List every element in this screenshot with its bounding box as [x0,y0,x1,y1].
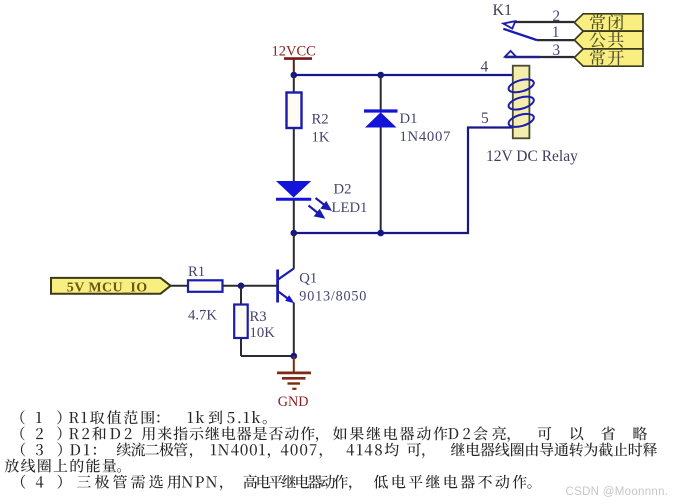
label 5V MCU_IO [67,280,148,295]
led D2 body [276,181,311,199]
wire port to R1 [171,285,188,287]
svg-text:1: 1 [552,24,560,41]
svg-text:LED1: LED1 [332,200,368,216]
svg-text:9013/8050: 9013/8050 [299,288,367,304]
label R1 [188,264,205,280]
wire 12V rail (R2 top to relay coil pin 4) [294,74,513,76]
relay K1 coil body [507,66,535,139]
resistor R3 [234,305,248,339]
pin number 1 [552,24,560,41]
pin Q1 collector [293,233,295,269]
power bar symbol 12VCC [284,57,312,60]
transistor Q1 body [278,269,295,304]
relay K1 NC contact [503,21,515,28]
svg-text:5: 5 [481,110,489,127]
note line 3 [21,442,657,458]
value label 10K [250,325,276,341]
pin R3 top [240,286,242,305]
svg-text:2: 2 [552,8,560,25]
note line 5 [21,475,532,491]
pin number 4 [481,59,489,76]
wire base node to Q1 base [241,285,278,287]
note line 2 [20,426,647,442]
pin R2 top [293,75,295,93]
node junction at D1 bottom [377,230,384,237]
label 12V DC Relay [486,148,578,165]
value label 1K [312,130,330,146]
svg-text:Q1: Q1 [299,270,317,286]
svg-text:12VCC: 12VCC [272,43,316,59]
resistor R2 [287,93,302,129]
port flag COM (gong-gong) [574,31,643,49]
svg-text:R1: R1 [188,264,205,280]
port flag NO (chang-kai) [574,49,643,66]
value label 9013/8050 [299,288,367,304]
relay K1 NO contact [505,51,516,57]
svg-text:10K: 10K [250,325,276,341]
value label 1N4007 [400,129,452,145]
pin D1 bottom [380,128,382,234]
label GND [278,394,309,410]
node junction at LED bottom [291,230,298,237]
led D2 light arrows [309,198,330,217]
resistor R1 [188,280,223,292]
port flag 5V MCU_IO [51,278,171,294]
wire relay pin 2 [511,21,575,23]
node junction at D1 top [377,72,384,79]
label D2 [334,182,352,198]
pin number 2 [552,8,560,25]
wire relay pin 3 [505,56,575,58]
note line 1 [20,410,267,424]
ground symbol [277,356,311,389]
svg-text:4: 4 [481,59,489,76]
svg-text:4.7K: 4.7K [188,308,217,324]
node junction at Q1 base / R3 top [238,283,245,290]
svg-text:K1: K1 [493,2,513,19]
svg-text:D2: D2 [334,182,352,198]
svg-text:3: 3 [552,42,560,59]
wire power stub [293,59,295,75]
label R3 [250,309,267,325]
value label LED1 [332,200,368,216]
label COM text [590,32,624,48]
svg-text:D1: D1 [400,111,418,127]
label D1 [400,111,418,127]
node junction at emitter / ground [291,353,298,360]
wire R3 bottom to emitter node [241,355,294,357]
svg-text:1K: 1K [312,130,330,146]
note line 4 [5,459,121,473]
label K1 [493,2,513,19]
pin D2 bottom [293,200,295,233]
label Q1 [299,270,317,286]
node junction at R2 top [291,72,298,79]
wire R1 to base node [223,285,242,287]
svg-text:1N4007: 1N4007 [400,129,452,145]
pin Q1 emitter [293,303,295,357]
pin number 5 [481,110,489,127]
svg-text:5V MCU_IO: 5V MCU_IO [67,280,148,295]
port flag NC (chang-bi) [574,14,643,31]
wire relay pin 1 [537,39,574,41]
diode D1 body [364,111,398,128]
label NC text [590,14,624,30]
svg-text:GND: GND [278,394,309,410]
pin R2 bottom [293,128,295,181]
power net label 12VCC [272,43,316,59]
value label 4.7K [188,308,217,324]
svg-text:CSDN @Moonnnn.: CSDN @Moonnnn. [566,486,669,498]
relay K1 switch arm [503,29,537,40]
pin R3 bottom [240,338,242,356]
wire collector net (LED bottom to D1 bottom to relay coil pin 5) [294,128,513,234]
pin D1 top [380,75,382,111]
pin number 3 [552,42,560,59]
svg-text:R2: R2 [312,112,329,128]
svg-text:12V DC Relay: 12V DC Relay [486,148,578,165]
label NO text [590,50,624,66]
svg-text:R3: R3 [250,309,267,325]
watermark CSDN [566,486,669,498]
label R2 [312,112,329,128]
